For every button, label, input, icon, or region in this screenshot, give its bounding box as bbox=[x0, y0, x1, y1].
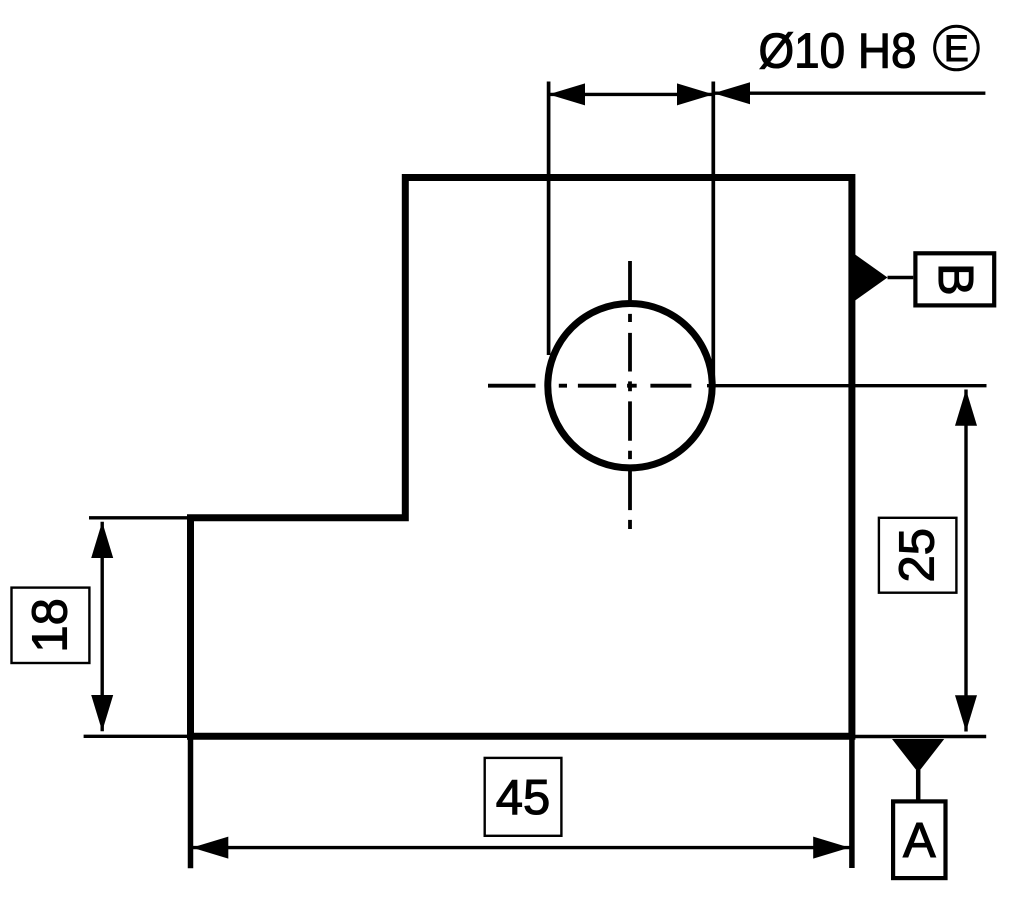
hole dimension left extension line bbox=[547, 82, 551, 356]
hole dimension left arrowhead bbox=[549, 83, 585, 105]
dimension 18 bottom extension line bbox=[84, 735, 190, 738]
hole circle bbox=[548, 304, 712, 468]
svg-text:25: 25 bbox=[891, 528, 945, 583]
hole dimension line bbox=[549, 93, 714, 96]
part outline (L-shaped block) bbox=[191, 178, 852, 737]
dimension 25 top arrowhead bbox=[955, 390, 977, 426]
hole dimension right arrowhead bbox=[677, 83, 713, 105]
dimension 45 left arrowhead bbox=[192, 837, 228, 859]
dimension 25 bottom arrowhead bbox=[955, 695, 977, 731]
dimension 45 box bbox=[485, 758, 562, 836]
dimension 25 line bbox=[964, 390, 967, 732]
horizontal centerline bbox=[488, 384, 707, 388]
dimension 18 bottom arrowhead bbox=[91, 695, 113, 731]
svg-text:Ø10 H8: Ø10 H8 bbox=[759, 25, 917, 79]
datum A triangle bbox=[892, 739, 944, 773]
datum B triangle bbox=[853, 253, 888, 302]
envelope symbol circle E bbox=[935, 26, 979, 70]
left edge extension line below part bbox=[188, 736, 194, 868]
leader line from hole note bbox=[714, 91, 986, 94]
svg-text:A: A bbox=[903, 814, 936, 868]
vertical centerline bbox=[628, 261, 632, 529]
dimension 18 box bbox=[12, 588, 90, 663]
dimension 25 box bbox=[879, 518, 957, 593]
datum B leader line bbox=[888, 276, 914, 280]
leader arrowhead bbox=[714, 82, 751, 104]
datum A stem bbox=[916, 770, 921, 800]
datum A box bbox=[893, 801, 945, 878]
dimension 18 top arrowhead bbox=[91, 522, 113, 558]
datum B box bbox=[915, 253, 994, 305]
bottom right extension line bbox=[852, 735, 986, 738]
right edge extension line below part bbox=[849, 736, 855, 868]
svg-text:45: 45 bbox=[496, 771, 551, 825]
svg-text:18: 18 bbox=[24, 598, 78, 653]
hole dimension right extension line bbox=[711, 82, 715, 389]
dimension 18 top extension line bbox=[89, 516, 193, 519]
svg-text:B: B bbox=[928, 263, 982, 296]
dimension 18 line bbox=[100, 522, 103, 732]
centerline extension to 25 dimension bbox=[707, 384, 987, 387]
dimension 45 right arrowhead bbox=[813, 837, 849, 859]
svg-text:E: E bbox=[944, 28, 969, 69]
dimension 45 line bbox=[192, 846, 850, 849]
